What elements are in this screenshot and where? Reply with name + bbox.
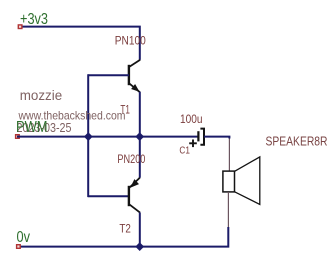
wire C1 output to speaker corner	[204, 137, 229, 139]
svg-text:T2: T2	[119, 224, 130, 236]
svg-text:PWM: PWM	[16, 119, 48, 136]
text 2023-03-25	[17, 120, 72, 135]
wire T2 base	[88, 195, 129, 197]
net label 0v	[17, 229, 31, 246]
transistor T2 (PNP PN200)	[129, 178, 140, 213]
label PN100	[115, 33, 146, 47]
svg-text:SPEAKER8R: SPEAKER8R	[266, 133, 328, 148]
label T1	[120, 105, 129, 117]
pin +3v3	[18, 25, 22, 29]
wire T1 base	[88, 74, 129, 76]
text mozzie	[20, 87, 63, 103]
net label PWM	[16, 119, 48, 136]
junction T2 collector / 0v rail	[135, 242, 144, 251]
label T2	[119, 224, 130, 236]
junction bases/PWM	[84, 132, 93, 141]
label C1	[179, 144, 190, 156]
wire T2 collector	[139, 213, 141, 247]
wire speaker positive lead	[228, 139, 230, 172]
capacitor C1 (polarized)	[189, 129, 204, 148]
wire speaker negative lead	[227, 192, 229, 228]
label PN200	[117, 152, 145, 166]
net label +3v3	[20, 11, 48, 28]
svg-text:PN200: PN200	[117, 152, 145, 166]
label 100u	[180, 114, 203, 126]
wire base bus vertical	[87, 74, 89, 197]
svg-text:+3v3: +3v3	[20, 11, 48, 28]
junction emitters/output	[135, 132, 144, 141]
wire T2 emitter	[139, 137, 141, 178]
svg-text:PN100: PN100	[115, 33, 146, 47]
wire PWM mid rail	[17, 136, 198, 138]
wire 0v rail	[17, 227, 228, 247]
pin PWM	[16, 135, 20, 139]
text www.thebackshed.com	[18, 108, 126, 122]
svg-text:mozzie: mozzie	[20, 87, 63, 103]
wire +3v3 rail to T1 collector	[20, 27, 140, 60]
svg-text:100u: 100u	[180, 114, 203, 126]
svg-text:0v: 0v	[17, 229, 31, 246]
pin 0v	[17, 245, 21, 249]
svg-text:C1: C1	[179, 144, 190, 156]
net label SPEAKER8R	[266, 133, 328, 148]
speaker LS1	[223, 157, 260, 205]
transistor T1 (NPN PN100)	[129, 60, 140, 93]
wire T1 emitter	[139, 92, 141, 137]
